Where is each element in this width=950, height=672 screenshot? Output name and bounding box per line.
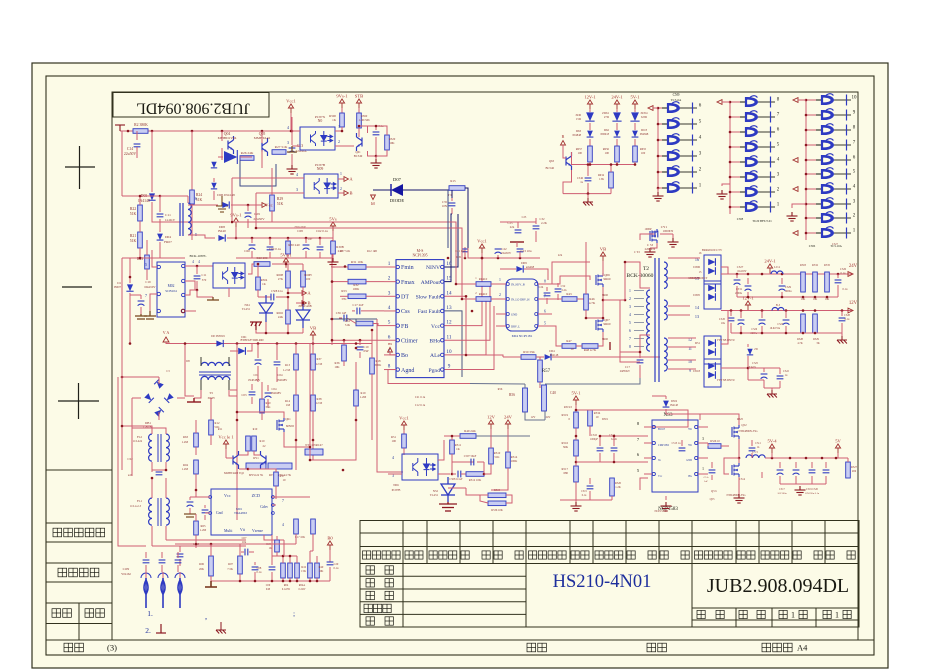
svg-text:STB: STB xyxy=(355,94,363,99)
wire pins left bus xyxy=(332,266,348,268)
svg-text:IN6918: IN6918 xyxy=(600,133,609,136)
wire lower gnd xyxy=(748,379,764,381)
svg-text:0.1u: 0.1u xyxy=(334,567,339,570)
svg-text:CX2: CX2 xyxy=(127,458,133,461)
resistor R53 37K xyxy=(348,294,366,299)
svg-text:22n: 22n xyxy=(558,254,563,257)
capacitor C516 xyxy=(779,462,781,468)
svg-text:D306: D306 xyxy=(693,265,700,269)
capacitor C11 570 xyxy=(196,266,198,274)
svg-text:Agnd: Agnd xyxy=(401,368,414,374)
pin stubs M02 right xyxy=(182,264,185,267)
wire mains entry xyxy=(145,572,147,578)
svg-text:13K: 13K xyxy=(599,178,604,181)
svg-text:R13: R13 xyxy=(285,363,291,367)
svg-text:51K: 51K xyxy=(277,202,284,206)
power 12V-1 xyxy=(745,301,750,310)
svg-text:300K: 300K xyxy=(375,363,383,367)
resistor R07 7.5K xyxy=(238,556,243,574)
row labels 设计 审核 工艺 标准化 批准 xyxy=(366,566,374,574)
connector CN9 pin 2 xyxy=(658,171,668,173)
resistor R510 51K xyxy=(489,448,494,464)
resistor R532 10K xyxy=(813,272,818,292)
ground Q61s big xyxy=(375,156,377,159)
wire M01 vcc xyxy=(196,490,210,497)
svg-text:13: 13 xyxy=(446,305,452,311)
resistor R06 26K xyxy=(209,556,214,576)
resistor R04 0.22W bank 2 xyxy=(288,563,293,578)
resistor R529 3K xyxy=(813,314,818,333)
svg-text:5V-1: 5V-1 xyxy=(630,95,640,100)
svg-text:C17: C17 xyxy=(625,365,631,369)
power Vcc1 xyxy=(479,244,484,253)
svg-text:D07: D07 xyxy=(393,177,402,182)
svg-text:C04: C04 xyxy=(277,373,283,377)
svg-text:PC87X: PC87X xyxy=(315,115,326,119)
zener D515 xyxy=(747,349,753,355)
svg-text:V A: V A xyxy=(163,330,170,335)
svg-text:1.2M: 1.2M xyxy=(182,440,189,444)
svg-text:61u50V: 61u50V xyxy=(737,270,746,273)
wire fanout FastFault navy xyxy=(444,311,462,377)
power 24V-1 xyxy=(614,100,619,109)
svg-text:R503: R503 xyxy=(800,264,807,267)
wire bridge connections xyxy=(158,377,160,384)
wire M02 pin1 Vcc xyxy=(185,310,196,312)
svg-text:C508 0.1uF: C508 0.1uF xyxy=(449,478,463,481)
resistor R536 10K xyxy=(488,501,506,506)
svg-text:C11: C11 xyxy=(165,213,171,217)
svg-text:15K: 15K xyxy=(301,570,306,573)
svg-text:JUB2.908.094DL: JUB2.908.094DL xyxy=(707,575,849,597)
svg-text:Pgnd: Pgnd xyxy=(428,368,440,374)
capacitor C01 electrolytic xyxy=(257,344,259,359)
arrester xyxy=(161,578,165,608)
node arrow CN8 top xyxy=(717,100,722,105)
resistor R602 24K xyxy=(286,310,291,324)
svg-text:L0 4: L0 4 xyxy=(774,265,780,269)
wire resonant bottom xyxy=(545,378,640,384)
resistor R10b 22 xyxy=(252,436,257,451)
node VA arrow xyxy=(163,337,169,342)
svg-text:3K: 3K xyxy=(816,342,819,345)
wire from opto2 to driver xyxy=(232,222,468,284)
svg-text:R536 10K: R536 10K xyxy=(491,509,503,512)
wire R50 net xyxy=(503,356,521,358)
capacitor C525 16V470u xyxy=(785,311,787,319)
svg-text:SCB104: SCB104 xyxy=(165,289,177,293)
svg-text:CN8: CN8 xyxy=(737,217,744,221)
svg-text:570: 570 xyxy=(202,278,207,282)
inductor L503 xyxy=(746,455,765,458)
svg-text:2: 2 xyxy=(629,297,631,301)
svg-text:Vcc: Vcc xyxy=(224,493,231,498)
svg-text:C511: C511 xyxy=(755,442,761,445)
resistor R40 10K xyxy=(315,563,320,578)
resistor R30B 240 xyxy=(331,241,336,254)
bridge rectifier DB1 GBU8J xyxy=(144,393,154,403)
svg-text:C520: C520 xyxy=(719,318,726,321)
svg-text:C19: C19 xyxy=(363,345,369,349)
capacitor C13 22u50V xyxy=(291,131,293,145)
svg-text:Bo: Bo xyxy=(401,353,408,359)
node circle Vcc junction xyxy=(181,309,185,313)
resistor R31 10K xyxy=(348,265,366,270)
svg-text:Vcc1: Vcc1 xyxy=(399,416,409,421)
wire navy down to IC xyxy=(465,188,468,248)
svg-text:C68: C68 xyxy=(297,229,303,233)
svg-text:8: 8 xyxy=(544,280,546,284)
pins M04 right xyxy=(538,283,552,285)
resistor R535 10K xyxy=(825,272,830,292)
wire Q06 source xyxy=(586,287,603,318)
power 24V-1 xyxy=(767,264,772,273)
svg-text:NINV: NINV xyxy=(426,265,440,271)
capacitor C526 0.1u xyxy=(837,274,839,278)
pin 14 Slow Fault xyxy=(441,295,444,298)
svg-text:D1: D1 xyxy=(117,281,121,285)
wire pin5 net xyxy=(575,482,577,500)
svg-text:51K: 51K xyxy=(130,239,137,243)
capacitor C29 22u50V xyxy=(247,205,249,211)
svg-text:NCP1583: NCP1583 xyxy=(654,510,666,513)
svg-text:C14: C14 xyxy=(127,147,133,151)
svg-text:R29: R29 xyxy=(277,197,283,201)
capacitor C514 1nF xyxy=(711,462,713,468)
svg-text:C508 0.1u: C508 0.1u xyxy=(271,290,283,293)
pin 9 Pgnd xyxy=(441,368,444,371)
capacitor bank across line xyxy=(145,552,147,558)
node Vcc xyxy=(262,203,266,208)
choke FL1 1CL4-2-3 xyxy=(149,498,152,525)
transformer T2 primary winding xyxy=(647,290,650,351)
svg-text:1: 1 xyxy=(791,611,795,620)
resistor R13 1.2M xyxy=(294,354,299,370)
svg-text:C Y2: C Y2 xyxy=(634,251,640,254)
resistor R534 10 xyxy=(588,410,593,426)
svg-text:ZD60 A6B: ZD60 A6B xyxy=(298,304,311,308)
wire top of NS3 xyxy=(652,395,666,397)
pin 11 BHo xyxy=(441,339,444,342)
resistor R24 51K xyxy=(191,131,193,190)
labels 等级 标记 第1页 共1页 xyxy=(697,610,705,618)
resistor R12 51K xyxy=(209,420,214,435)
ground CN8 xyxy=(717,190,728,199)
svg-text:CN6: CN6 xyxy=(809,244,816,248)
svg-text:8: 8 xyxy=(388,364,391,370)
svg-text:24V-1: 24V-1 xyxy=(611,95,623,100)
wire standby left link xyxy=(248,264,254,274)
diode D08 B240 xyxy=(218,234,225,241)
svg-text:5: 5 xyxy=(544,322,546,326)
left strip cells xyxy=(46,470,112,640)
svg-text:4.7K: 4.7K xyxy=(589,301,596,305)
svg-text:C526: C526 xyxy=(751,328,757,331)
pin 12 Vcc xyxy=(441,324,444,327)
header 更改标记 数量 文件号 签名 日期 xyxy=(529,551,567,559)
power VB xyxy=(310,331,315,340)
svg-text:9Vs-1: 9Vs-1 xyxy=(336,94,348,99)
wire VB to Q06 xyxy=(548,262,590,284)
svg-text:MMBD1V04: MMBD1V04 xyxy=(218,136,237,140)
svg-text:R528: R528 xyxy=(797,338,803,341)
svg-text:24V: 24V xyxy=(546,416,551,419)
svg-text:10: 10 xyxy=(283,478,287,482)
pins M04 left xyxy=(496,283,506,285)
wire long vertical left edge xyxy=(121,375,123,377)
wire M01 cs pin xyxy=(264,535,284,540)
wire aux rail xyxy=(227,237,320,239)
resistor R516 36K xyxy=(574,440,579,456)
svg-text:R634: R634 xyxy=(598,174,605,177)
svg-text:B0: B0 xyxy=(327,536,333,541)
wire top rail driver xyxy=(468,248,540,258)
wire xyxy=(152,215,230,222)
wire opto N06 right xyxy=(438,440,444,460)
transistor Q60 MMBT4403 xyxy=(233,451,239,469)
connector CN6 pin 10 xyxy=(806,99,822,101)
wire from opto2 down-left xyxy=(231,178,233,222)
wire Q07 source to ground bar xyxy=(602,339,604,346)
svg-text:R515: R515 xyxy=(494,489,501,492)
wire fanout Vcc pin xyxy=(444,258,482,326)
svg-text:R560: R560 xyxy=(361,114,368,118)
connector CN6 pin 9 xyxy=(806,114,822,116)
wire aux mid to D06 xyxy=(188,204,218,206)
svg-text:10n: 10n xyxy=(242,540,247,544)
capacitor C528 0.1u xyxy=(841,311,843,317)
mosfet Q06 9R60 xyxy=(596,273,603,287)
svg-text:M-S: M-S xyxy=(417,249,424,253)
svg-text:7: 7 xyxy=(282,499,284,503)
svg-text:5: 5 xyxy=(145,262,147,267)
wire fanout AMPout xyxy=(444,214,452,282)
svg-text:6: 6 xyxy=(195,196,197,201)
svg-text:BC546: BC546 xyxy=(545,166,554,170)
svg-text:R60 680: R60 680 xyxy=(257,256,268,260)
relay RY1 xyxy=(246,463,266,469)
svg-text:100: 100 xyxy=(306,277,311,281)
power B0 xyxy=(327,541,332,550)
svg-text:Css: Css xyxy=(401,309,410,315)
svg-text:Slow Fault: Slow Fault xyxy=(416,295,441,301)
connector CN6 pin 2 xyxy=(806,217,822,219)
svg-text:R15: R15 xyxy=(450,179,456,183)
svg-text:10K: 10K xyxy=(389,141,395,145)
pin 13 Fast Fault xyxy=(441,309,444,312)
svg-text:0.22W: 0.22W xyxy=(299,588,307,591)
svg-text:FYP SB DNTU: FYP SB DNTU xyxy=(717,379,735,382)
resistor R504 1K xyxy=(256,277,261,290)
zener ZD54 6.8D xyxy=(630,112,639,121)
capacitor C520 10u xyxy=(730,311,732,317)
svg-text:4: 4 xyxy=(282,523,284,527)
wire ac line long xyxy=(118,377,146,546)
svg-text:47nF: 47nF xyxy=(363,350,369,353)
svg-text:1K: 1K xyxy=(332,118,337,122)
ground earth in note xyxy=(216,626,226,634)
capacitor C08 0.1u xyxy=(254,562,256,565)
wire divider columns down xyxy=(295,411,297,470)
svg-text:D62: D62 xyxy=(604,128,610,132)
power STB xyxy=(356,99,361,108)
svg-text:NTC1 NRC47: NTC1 NRC47 xyxy=(305,443,323,447)
wire zener gnd bus xyxy=(563,193,611,195)
svg-text:10K: 10K xyxy=(801,298,806,301)
mosfet Q52 NTD4806N xyxy=(732,425,739,439)
wire tank return xyxy=(620,300,640,352)
power Vcc le 1 xyxy=(223,440,228,449)
capacitor C09s xyxy=(271,562,273,565)
wire Q53 xyxy=(724,458,739,474)
IC M02 SCB104 block xyxy=(157,262,185,317)
capacitor C11 1n1KV xyxy=(159,196,161,212)
svg-text:R10: R10 xyxy=(259,439,265,443)
svg-text:C528: C528 xyxy=(844,314,850,317)
wire R09 xyxy=(276,536,278,540)
wire R515 net xyxy=(480,495,488,503)
power 12V xyxy=(488,420,493,429)
svg-text:Vsense: Vsense xyxy=(252,529,263,533)
svg-text:10N: 10N xyxy=(442,204,448,208)
svg-text:C60: C60 xyxy=(244,249,250,253)
capacitor C19 47nF xyxy=(359,340,361,345)
svg-text:TL431: TL431 xyxy=(430,493,439,497)
wire C19 tap xyxy=(130,294,141,296)
wire Q52 xyxy=(721,445,729,447)
zener D502 IN4148 xyxy=(663,401,670,407)
svg-text:1N4E4B/V: 1N4E4B/V xyxy=(248,379,261,382)
ground 12V right xyxy=(841,333,843,336)
svg-text:60N65: 60N65 xyxy=(286,424,295,428)
svg-text:1n1KV: 1n1KV xyxy=(165,218,176,222)
svg-text:4.7K: 4.7K xyxy=(797,342,802,345)
ground sense brown xyxy=(205,581,217,587)
diode D04 FR07 xyxy=(157,234,164,240)
svg-text:36K: 36K xyxy=(563,445,569,449)
svg-text:C40: C40 xyxy=(550,391,556,395)
wire VB rail from top xyxy=(447,190,449,248)
resistor R63p 1.2M xyxy=(194,433,199,447)
registration cross lower xyxy=(58,383,99,419)
svg-text:2nH5KV: 2nH5KV xyxy=(620,370,630,373)
svg-text:N06: N06 xyxy=(393,483,399,487)
wire Q63 collector xyxy=(571,152,574,165)
node Vcc arrow xyxy=(231,204,262,206)
thermistor NTC1 NRC47 xyxy=(305,449,323,455)
wire fanout Pgnd xyxy=(444,306,494,370)
svg-text:Q63: Q63 xyxy=(549,159,555,163)
power Vcc1 xyxy=(401,421,406,430)
registration dash middle xyxy=(62,286,92,288)
svg-text:SW: SW xyxy=(688,428,692,431)
svg-text:R50 33K: R50 33K xyxy=(523,350,535,354)
svg-text:R40: R40 xyxy=(319,566,324,569)
svg-text:IN4948V: IN4948V xyxy=(271,392,282,395)
resistor R655 100 xyxy=(633,146,638,162)
resistor R560 1.10K xyxy=(357,113,362,128)
svg-text:C525: C525 xyxy=(752,362,758,365)
svg-text:C513 1u: C513 1u xyxy=(672,442,682,445)
wire opto1 pins xyxy=(292,130,300,132)
wire M01 gdrv xyxy=(272,504,276,506)
svg-text:FR07: FR07 xyxy=(164,240,172,244)
svg-text:R22: R22 xyxy=(130,207,136,211)
title box JUB2.908.094DL (rotated) xyxy=(113,93,269,118)
node arrow CN9 xyxy=(648,106,653,111)
svg-text:2: 2 xyxy=(340,187,342,191)
svg-text:1.: 1. xyxy=(147,609,153,618)
resistor R19 1.2M xyxy=(354,390,359,406)
connector CN6 pin 8 xyxy=(806,129,822,131)
resistor R65p 1.2M xyxy=(194,521,199,535)
svg-text:100K: 100K xyxy=(511,459,519,463)
capacitor C526b 2200u xyxy=(761,311,763,319)
svg-text:1000pF: 1000pF xyxy=(590,438,598,441)
svg-text:5Vs-1: 5Vs-1 xyxy=(280,253,292,258)
svg-text:R49 24K: R49 24K xyxy=(464,429,476,433)
wire FL2 xyxy=(122,426,152,434)
label 幅面 A4 xyxy=(762,643,792,652)
resistor R517 680 xyxy=(574,466,579,482)
svg-text:Q5 b: Q5 b xyxy=(711,489,717,493)
wire FB navy in xyxy=(330,319,356,324)
wire switch node to tank xyxy=(603,262,640,300)
mosfet Q07 9R60 xyxy=(596,318,603,332)
svg-text:9R60: 9R60 xyxy=(602,294,609,297)
svg-text:22u50V: 22u50V xyxy=(124,152,136,156)
label 日期 xyxy=(52,609,71,618)
svg-text:14: 14 xyxy=(446,290,452,296)
capacitor C525b 16V470u xyxy=(763,368,765,372)
wire R534 to pin8 via top xyxy=(590,410,688,427)
svg-text:C519 C520: C519 C520 xyxy=(806,488,819,491)
inner border xyxy=(46,76,874,655)
svg-text:10K: 10K xyxy=(334,365,340,369)
zener ZD6 15D xyxy=(585,112,594,121)
svg-text:24V: 24V xyxy=(504,415,513,420)
svg-text:0.1u: 0.1u xyxy=(257,571,262,574)
resistor R27 51K xyxy=(272,150,286,155)
capacitor C511 1n xyxy=(751,440,753,446)
wire snubber xyxy=(500,221,536,223)
svg-text:B: B xyxy=(562,134,565,139)
svg-text:R512 10K: R512 10K xyxy=(469,478,482,482)
capacitor C5b 1u xyxy=(761,472,763,478)
svg-text:FL2: FL2 xyxy=(137,435,143,439)
svg-text:10u: 10u xyxy=(721,322,726,325)
node B xyxy=(302,301,306,306)
svg-text:NTD4806N-35G: NTD4806N-35G xyxy=(738,430,757,433)
choke FL2 1CL4-2-4 xyxy=(149,434,152,461)
svg-text:VB: VB xyxy=(600,247,606,252)
transistor Q05 MMBTA42 xyxy=(262,138,268,156)
capacitor C522 1u xyxy=(779,368,781,374)
svg-text:MMBT4403 TQ2: MMBT4403 TQ2 xyxy=(224,472,245,475)
svg-text:22u50V: 22u50V xyxy=(253,217,265,221)
svg-text:C514: C514 xyxy=(739,478,746,481)
svg-text:MYS124 7K: MYS124 7K xyxy=(249,474,263,477)
resistor R520 1.2K xyxy=(610,478,615,496)
wire link PFC to LLC xyxy=(342,469,344,471)
resistor R14 1M xyxy=(294,395,299,411)
svg-text:3: 3 xyxy=(287,140,289,145)
svg-text:ZCD: ZCD xyxy=(252,493,260,498)
svg-text:C17 2nF: C17 2nF xyxy=(352,303,363,307)
capacitor C03 xyxy=(251,384,253,390)
svg-text:C29: C29 xyxy=(254,212,260,216)
pins NS3 left xyxy=(644,426,652,428)
